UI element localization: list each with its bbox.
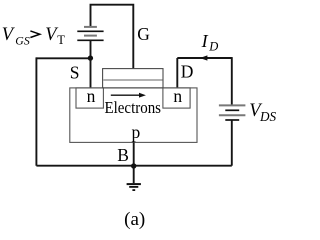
- arrowhead ID pointing left: [200, 55, 208, 60]
- battery VDS plate long gray lower: [219, 114, 246, 116]
- battery VDS plate short black upper: [225, 109, 239, 111]
- wire ID horizontal with arrow: [177, 57, 232, 59]
- svg-text:GS: GS: [15, 33, 30, 47]
- transistor source n-well box: [76, 88, 103, 108]
- svg-text:D: D: [181, 62, 194, 82]
- label VGS > VT: [2, 25, 66, 47]
- svg-text:(a): (a): [124, 209, 145, 230]
- wire bulk vertical from p box to ground: [133, 142, 135, 183]
- svg-text:B: B: [117, 145, 129, 165]
- wire VGS battery bottom lead to node S: [90, 40, 92, 58]
- wire S horizontal: [36, 57, 90, 59]
- wire right vertical to VDS battery: [231, 57, 233, 105]
- label VDS: [249, 101, 276, 124]
- svg-text:n: n: [87, 86, 96, 106]
- node junction dot at B: [131, 163, 136, 168]
- svg-text:Electrons: Electrons: [105, 98, 162, 117]
- wire D vertical into drain n-well: [176, 58, 178, 88]
- svg-text:T: T: [57, 33, 65, 47]
- battery VGS plate short gray lower: [84, 35, 97, 37]
- transistor gate stack box: [103, 69, 163, 88]
- battery VGS plate long black bottom: [77, 39, 103, 41]
- wire top from VGS battery to gate: [91, 5, 134, 69]
- svg-text:D: D: [208, 40, 218, 54]
- label ID: [201, 31, 219, 54]
- wire S vertical into source n-well: [90, 58, 92, 88]
- transistor drain n-well box: [163, 88, 190, 108]
- svg-text:V: V: [2, 25, 16, 45]
- wire bottom horizontal: [36, 165, 231, 167]
- svg-text:G: G: [137, 24, 150, 44]
- battery VDS plate long gray top: [219, 104, 246, 106]
- arrow electrons flow: [111, 94, 140, 96]
- ground symbol: [127, 184, 141, 190]
- wire left vertical: [35, 57, 37, 165]
- battery VDS plate short black bottom: [225, 119, 239, 121]
- transistor gate oxide line gray: [103, 79, 162, 81]
- node junction dot at S: [88, 55, 93, 60]
- svg-text:DS: DS: [259, 109, 277, 124]
- svg-text:I: I: [201, 31, 209, 51]
- battery VGS plate long black upper: [77, 30, 103, 32]
- svg-text:p: p: [132, 122, 141, 142]
- battery VGS plate short gray top: [84, 26, 97, 28]
- wire VDS battery bottom lead: [231, 120, 233, 166]
- svg-text:n: n: [173, 86, 182, 106]
- svg-text:S: S: [70, 63, 80, 83]
- transistor p-substrate box: [70, 88, 197, 142]
